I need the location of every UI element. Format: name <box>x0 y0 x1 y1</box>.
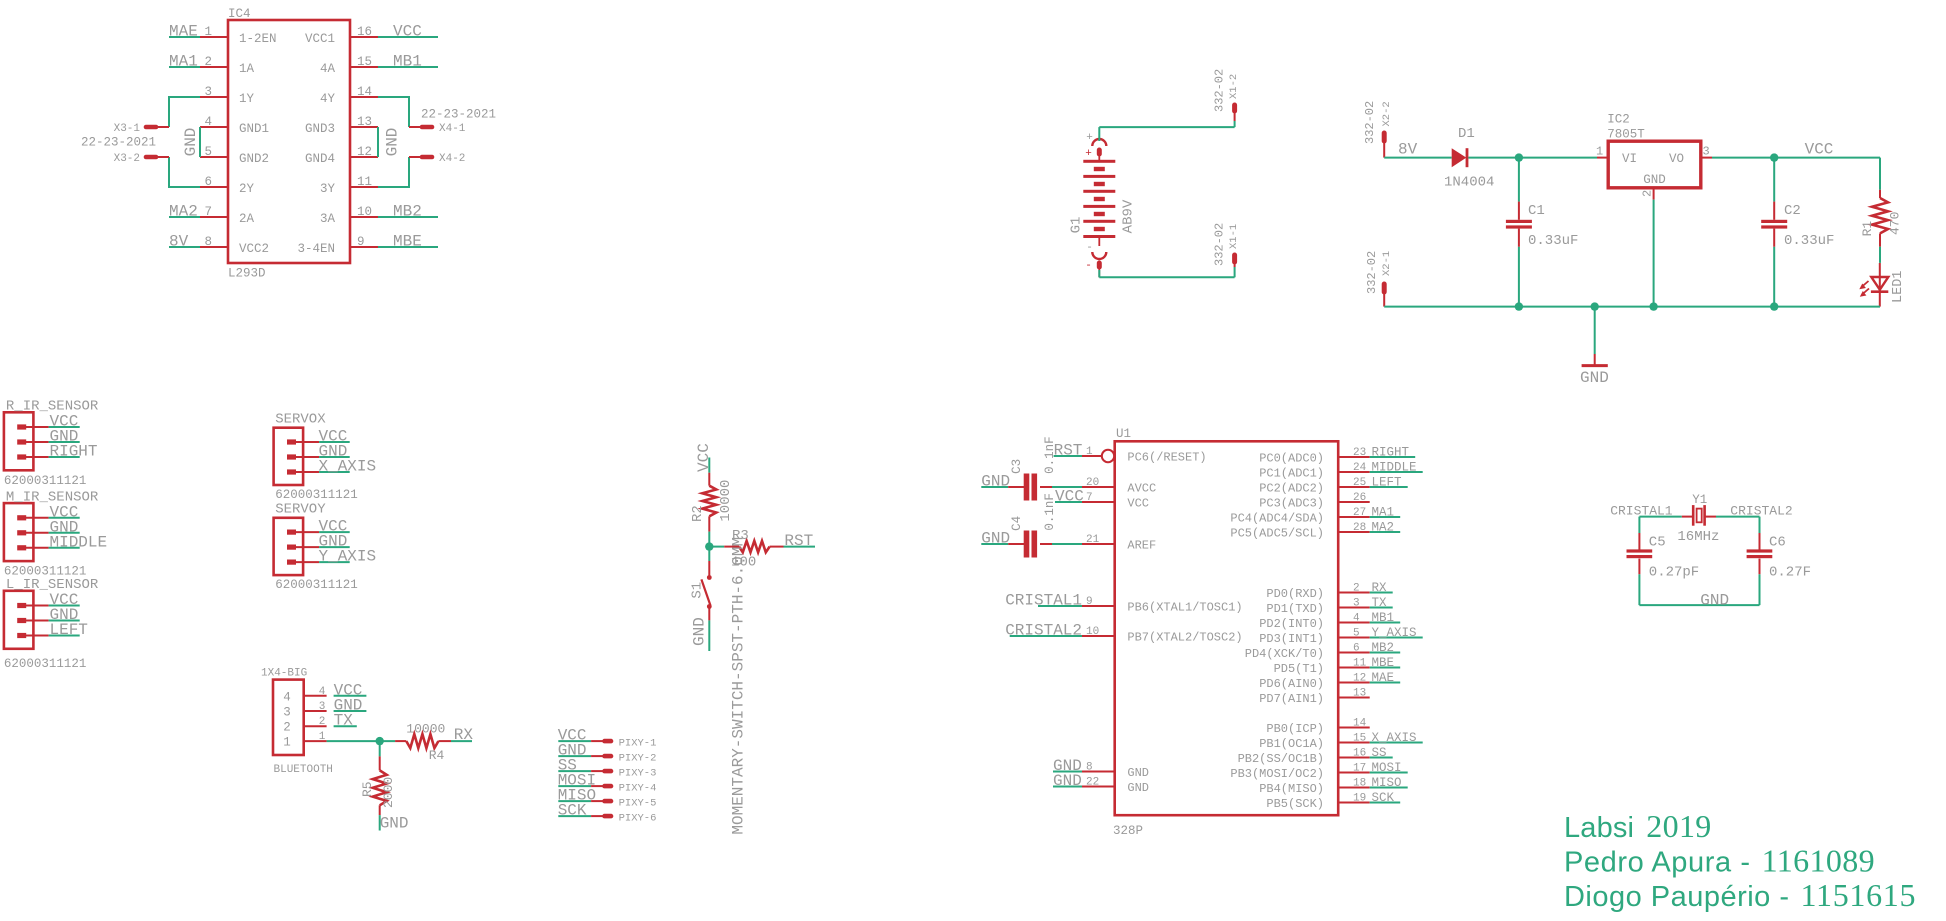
svg-text:VCC: VCC <box>1127 497 1149 511</box>
svg-text:GND: GND <box>1053 772 1082 790</box>
battery G1 value AB9V <box>1120 199 1136 233</box>
svg-text:24: 24 <box>1353 462 1367 474</box>
connector SERVOX body <box>274 428 320 485</box>
svg-text:PIXY-3: PIXY-3 <box>619 768 657 780</box>
connector SERVOY body <box>274 518 320 575</box>
U1 pin 17 PB3(MOSI/OC2) <box>1230 763 1369 782</box>
label CRISTAL1 <box>1610 503 1673 518</box>
svg-text:13: 13 <box>357 115 372 129</box>
crystal Y1 <box>1682 505 1716 526</box>
net VCC above R2 <box>695 443 713 473</box>
svg-text:VCC1: VCC1 <box>305 32 335 46</box>
svg-text:3: 3 <box>1353 598 1360 610</box>
svg-text:4: 4 <box>204 115 212 129</box>
svg-text:Y_AXIS: Y_AXIS <box>319 548 377 566</box>
U1 pin 21 AREF <box>1082 534 1156 553</box>
net GND at SERVOY pin 2 <box>319 533 350 551</box>
net MOSI at U1 pin 17 <box>1370 761 1408 775</box>
U1 pin 3 PD1(TXD) <box>1266 598 1369 617</box>
svg-text:9: 9 <box>1086 596 1093 608</box>
svg-text:RIGHT: RIGHT <box>50 443 98 461</box>
svg-text:1: 1 <box>1086 446 1093 458</box>
svg-text:0.33uF: 0.33uF <box>1784 233 1834 249</box>
svg-text:9: 9 <box>357 235 365 249</box>
svg-text:1-2EN: 1-2EN <box>239 32 277 46</box>
label 22-23-2021 left <box>81 136 156 150</box>
connector L_IR_SENSOR name <box>6 577 99 593</box>
labels 332-02 X2-1 <box>1365 251 1393 294</box>
net MB2 at U1 pin 6 <box>1370 641 1401 655</box>
capacitor C4 with GND <box>981 493 1082 557</box>
connector SERVOY value 62000311121 <box>275 578 358 592</box>
svg-text:6: 6 <box>1353 643 1360 655</box>
connector R_IR_SENSOR name <box>6 399 99 415</box>
connector SERVOY name <box>275 502 326 518</box>
svg-text:6: 6 <box>204 175 212 189</box>
svg-text:4: 4 <box>319 686 326 698</box>
svg-text:VCC: VCC <box>1055 488 1084 506</box>
svg-text:470: 470 <box>1888 212 1903 235</box>
svg-text:MB2: MB2 <box>393 203 422 221</box>
svg-text:RX: RX <box>454 726 474 744</box>
svg-text:C4: C4 <box>1010 516 1024 531</box>
svg-text:PB7(XTAL2/TOSC2): PB7(XTAL2/TOSC2) <box>1127 631 1242 645</box>
IC U1 body <box>1115 441 1339 815</box>
net VCC at SERVOY pin 1 <box>319 518 350 536</box>
svg-text:Y1: Y1 <box>1692 493 1707 507</box>
net MA2 wire+label at IC4 <box>169 203 200 221</box>
svg-text:2: 2 <box>1353 583 1360 595</box>
svg-text:LEFT: LEFT <box>1372 476 1403 490</box>
IC4 pin 11 3Y <box>320 175 378 196</box>
svg-text:21: 21 <box>1086 534 1100 546</box>
svg-text:GND: GND <box>690 617 708 646</box>
svg-text:62000311121: 62000311121 <box>4 657 87 671</box>
resistor R1 <box>1860 198 1903 236</box>
connector L_IR_SENSOR value 62000311121 <box>4 657 87 671</box>
net TX at BLUETOOTH pin 2 <box>319 712 357 730</box>
wire IC4 pin14 to X4-1 <box>378 97 409 127</box>
svg-text:RX: RX <box>1372 581 1388 595</box>
pin X4-2 <box>409 153 465 165</box>
svg-text:5: 5 <box>1353 628 1360 640</box>
connector R_IR_SENSOR value 62000311121 <box>4 474 87 488</box>
U1 pin 14 PB0(ICP) <box>1266 718 1369 737</box>
net GND bracket right of IC4 <box>378 127 402 157</box>
svg-text:62000311121: 62000311121 <box>4 474 87 488</box>
svg-text:PIXY-1: PIXY-1 <box>619 738 657 750</box>
svg-text:28: 28 <box>1353 522 1366 534</box>
svg-text:MOSI: MOSI <box>1372 761 1402 775</box>
svg-text:62000311121: 62000311121 <box>275 578 358 592</box>
net MIDDLE at M_IR_SENSOR pin 3 <box>49 533 108 551</box>
IC4 pin 4 GND1 <box>200 115 269 136</box>
svg-text:VCC: VCC <box>393 23 422 41</box>
svg-text:15: 15 <box>357 55 372 69</box>
svg-text:C5: C5 <box>1649 535 1666 551</box>
svg-text:GND: GND <box>380 815 409 833</box>
svg-text:PD1(TXD): PD1(TXD) <box>1266 602 1324 616</box>
U1 pin 28 PC5(ADC5/SCL) <box>1230 522 1369 541</box>
IC4 name label <box>228 7 251 21</box>
wire BLUETOOTH pin1 to node <box>327 737 396 745</box>
resistor R4 <box>395 722 451 764</box>
battery G1 bottom clip <box>1085 238 1106 277</box>
svg-text:3Y: 3Y <box>320 182 336 196</box>
connector M_IR_SENSOR body <box>4 503 49 561</box>
svg-text:0.1nF: 0.1nF <box>1043 493 1057 531</box>
U1 pin 16 PB2(SS/OC1B) <box>1238 748 1370 767</box>
svg-text:VCC: VCC <box>1805 141 1834 159</box>
wire CRISTAL1 loop <box>1639 517 1681 533</box>
svg-text:MAE: MAE <box>1372 671 1395 685</box>
connector M_IR_SENSOR value 62000311121 <box>4 565 87 579</box>
svg-text:GND2: GND2 <box>239 152 269 166</box>
pin X2-2 <box>1382 133 1387 158</box>
svg-text:PB3(MOSI/OC2): PB3(MOSI/OC2) <box>1230 767 1324 781</box>
net CRISTAL2 at U1 <box>1005 622 1082 640</box>
pin X2-1 <box>1382 284 1387 307</box>
svg-text:332-02: 332-02 <box>1213 69 1227 112</box>
wire R2 to node <box>705 516 713 551</box>
svg-text:14: 14 <box>357 85 372 99</box>
svg-text:332-02: 332-02 <box>1213 223 1227 266</box>
svg-text:D1: D1 <box>1458 126 1475 142</box>
U1 pin 22 GND <box>1082 777 1149 796</box>
svg-text:MB2: MB2 <box>1372 641 1395 655</box>
svg-text:4Y: 4Y <box>320 92 336 106</box>
wire VCC corner down to R1 <box>1879 158 1881 198</box>
svg-text:RST: RST <box>784 532 813 550</box>
IC4 pin 8 VCC2 <box>200 235 269 256</box>
net SCK at U1 pin 19 <box>1370 791 1401 805</box>
net GND at U1 pin22 <box>1053 772 1082 790</box>
U1 pin 15 PB1(OC1A) <box>1259 733 1370 752</box>
svg-text:Y_AXIS: Y_AXIS <box>1372 626 1417 640</box>
svg-text:1X4-BIG: 1X4-BIG <box>261 667 307 679</box>
IC2 pin 1 <box>1596 145 1608 159</box>
IC4 pin 12 GND4 <box>305 145 378 166</box>
wire D1 to IC2 pin1 <box>1468 153 1597 161</box>
connector BLUETOOTH name 1X4-BIG <box>261 667 307 679</box>
resistor R2 <box>690 480 734 522</box>
svg-text:PD7(AIN1): PD7(AIN1) <box>1259 692 1324 706</box>
net MB1 wire+label at IC4 <box>378 53 438 71</box>
svg-text:PC3(ADC3): PC3(ADC3) <box>1259 497 1324 511</box>
svg-text:2000: 2000 <box>381 777 396 808</box>
IC4 pin 10 3A <box>320 205 378 226</box>
net GND at M_IR_SENSOR pin 2 <box>49 518 80 536</box>
net VCC at U1 <box>1055 488 1084 506</box>
svg-text:R1: R1 <box>1860 221 1875 237</box>
svg-text:X1-2: X1-2 <box>1228 74 1240 99</box>
svg-text:MOMENTARY-SWITCH-SPST-PTH-6.0M: MOMENTARY-SWITCH-SPST-PTH-6.0MM <box>729 537 747 835</box>
svg-text:MA2: MA2 <box>1372 521 1395 535</box>
svg-text:0.27pF: 0.27pF <box>1649 565 1699 581</box>
svg-text:17: 17 <box>1353 763 1366 775</box>
pin X4-1 <box>409 123 466 135</box>
svg-text:1: 1 <box>204 25 212 39</box>
svg-text:PB5(SCK): PB5(SCK) <box>1266 797 1324 811</box>
svg-text:25: 25 <box>1353 477 1366 489</box>
svg-text:GND: GND <box>1643 173 1666 187</box>
svg-text:+: + <box>1086 132 1093 144</box>
ground symbol <box>1580 307 1609 387</box>
svg-text:VCC2: VCC2 <box>239 242 269 256</box>
svg-text:Labsi: Labsi <box>1564 812 1634 844</box>
svg-text:GND: GND <box>182 128 200 157</box>
connector SERVOX value 62000311121 <box>275 488 358 502</box>
net TX at U1 pin 3 <box>1370 596 1393 610</box>
svg-text:MB1: MB1 <box>1372 611 1395 625</box>
net MBE at U1 pin 11 <box>1370 656 1401 670</box>
svg-text:SCK: SCK <box>1372 791 1395 805</box>
svg-text:8: 8 <box>204 235 212 249</box>
IC4 pin 14 4Y <box>320 85 378 106</box>
svg-text:GND: GND <box>1127 766 1149 780</box>
svg-text:U1: U1 <box>1116 427 1131 441</box>
U1 pin 26 PC3(ADC3) <box>1259 492 1370 511</box>
svg-text:0.1nF: 0.1nF <box>1043 436 1057 474</box>
svg-text:22-23-2021: 22-23-2021 <box>81 136 156 150</box>
svg-text:PD0(RXD): PD0(RXD) <box>1266 587 1324 601</box>
svg-text:27: 27 <box>1353 507 1366 519</box>
svg-text:GND4: GND4 <box>305 152 335 166</box>
svg-text:PIXY-2: PIXY-2 <box>619 753 657 765</box>
pin PIXY-2 with net GND <box>558 742 657 765</box>
svg-text:S1: S1 <box>690 582 706 599</box>
svg-text:BLUETOOTH: BLUETOOTH <box>274 764 333 776</box>
svg-text:16: 16 <box>1353 748 1366 760</box>
wire S1 to GND <box>708 607 710 651</box>
svg-text:1151615: 1151615 <box>1801 877 1916 913</box>
svg-text:GND: GND <box>384 128 402 157</box>
svg-text:3: 3 <box>1703 145 1710 159</box>
net GND at L_IR_SENSOR pin 2 <box>49 606 80 624</box>
svg-text:PD5(T1): PD5(T1) <box>1274 662 1324 676</box>
net RX at U1 pin 2 <box>1370 581 1393 595</box>
title text Labsi 2019 <box>1564 808 1711 844</box>
battery G1 name <box>1069 217 1085 234</box>
U1 pin 5 PD3(INT1) <box>1259 628 1370 647</box>
net SS at U1 pin 16 <box>1370 746 1393 760</box>
svg-text:PC4(ADC4/SDA): PC4(ADC4/SDA) <box>1230 512 1324 526</box>
svg-text:0.27F: 0.27F <box>1769 565 1811 581</box>
wire IC4 pin3 to X3-1 <box>169 97 200 127</box>
svg-text:PC1(ADC1): PC1(ADC1) <box>1259 467 1324 481</box>
svg-text:3A: 3A <box>320 212 336 226</box>
Y1 name label <box>1692 493 1707 507</box>
svg-text:PB0(ICP): PB0(ICP) <box>1266 722 1324 736</box>
svg-text:IC4: IC4 <box>228 7 251 21</box>
capacitor C1 <box>1506 158 1579 307</box>
svg-text:PIXY-6: PIXY-6 <box>619 813 657 825</box>
svg-text:TX: TX <box>1372 596 1388 610</box>
svg-text:11: 11 <box>357 175 372 189</box>
svg-text:PC0(ADC0): PC0(ADC0) <box>1259 452 1324 466</box>
svg-text:4A: 4A <box>320 62 336 76</box>
svg-text:PD2(INT0): PD2(INT0) <box>1259 617 1324 631</box>
svg-text:AREF: AREF <box>1127 539 1156 553</box>
svg-text:MA1: MA1 <box>169 53 198 71</box>
U1 pin 23 PC0(ADC0) <box>1259 447 1370 466</box>
net RST at U1 <box>1054 442 1083 460</box>
labels 332-02 X1-2 <box>1213 69 1240 112</box>
svg-text:IC2: IC2 <box>1607 113 1630 127</box>
svg-text:-: - <box>1086 242 1093 254</box>
svg-text:1N4004: 1N4004 <box>1444 175 1494 191</box>
wire CRISTAL2 loop <box>1716 517 1760 533</box>
svg-text:1Y: 1Y <box>239 92 255 106</box>
svg-text:1161089: 1161089 <box>1762 842 1875 878</box>
net GND at crystal <box>1700 592 1729 610</box>
net MA1 wire+label at IC4 <box>169 53 200 71</box>
svg-text:MIDDLE: MIDDLE <box>1372 461 1417 475</box>
wire R1 to LED1 <box>1879 233 1881 263</box>
svg-text:RIGHT: RIGHT <box>1372 446 1410 460</box>
svg-text:PD3(INT1): PD3(INT1) <box>1259 632 1324 646</box>
net MBE wire+label at IC4 <box>378 233 438 251</box>
svg-text:3: 3 <box>319 701 326 713</box>
svg-text:C2: C2 <box>1784 203 1801 219</box>
svg-text:1: 1 <box>283 736 291 750</box>
net Y_AXIS at SERVOY pin 3 <box>319 548 377 566</box>
net GND at R_IR_SENSOR pin 2 <box>49 428 80 446</box>
svg-text:22-23-2021: 22-23-2021 <box>421 108 496 122</box>
svg-text:12: 12 <box>357 145 372 159</box>
svg-text:X1-1: X1-1 <box>1228 224 1240 249</box>
svg-text:8: 8 <box>1086 762 1093 774</box>
net X_AXIS at U1 pin 15 <box>1370 731 1423 745</box>
svg-text:11: 11 <box>1353 658 1367 670</box>
svg-text:0.33uF: 0.33uF <box>1528 233 1578 249</box>
U1 pin 4 PD2(INT0) <box>1259 613 1370 632</box>
svg-text:7805T: 7805T <box>1607 128 1645 142</box>
wire node to S1 <box>708 547 710 576</box>
svg-text:VCC: VCC <box>695 443 713 472</box>
net GND bracket left of IC4 <box>182 127 200 157</box>
U1 pin 10 PB7(XTAL2/TOSC2) <box>1082 626 1243 645</box>
labels 332-02 X1-1 <box>1213 223 1240 266</box>
svg-text:SERVOX: SERVOX <box>275 412 326 428</box>
svg-text:C1: C1 <box>1528 203 1545 219</box>
svg-text:2: 2 <box>1641 190 1655 197</box>
net GND at BLUETOOTH pin 3 <box>319 697 367 715</box>
svg-text:MB1: MB1 <box>393 53 422 71</box>
svg-text:MIDDLE: MIDDLE <box>50 533 108 551</box>
svg-text:10: 10 <box>1086 626 1099 638</box>
svg-text:26: 26 <box>1353 492 1366 504</box>
svg-text:MA1: MA1 <box>1372 506 1395 520</box>
connector BLUETOOTH 1X4-BIG body <box>273 680 327 755</box>
svg-text:X4-2: X4-2 <box>439 153 465 165</box>
wire IC4 pin11 to X4-2 <box>378 157 409 187</box>
label 22-23-2021 right <box>421 108 496 122</box>
svg-text:13: 13 <box>1353 688 1366 700</box>
svg-text:19: 19 <box>1353 793 1366 805</box>
U1 pin 12 PD6(AIN0) <box>1259 673 1370 692</box>
svg-text:2A: 2A <box>239 212 255 226</box>
svg-text:15: 15 <box>1353 733 1366 745</box>
title text Diogo Pauperio <box>1564 877 1916 913</box>
IC4 pin 15 4A <box>320 55 378 76</box>
IC4 pin 6 2Y <box>200 175 255 196</box>
svg-text:PC6(/RESET): PC6(/RESET) <box>1127 451 1206 465</box>
IC2 labels <box>1607 113 1684 188</box>
U1 pin 8 GND <box>1082 762 1149 781</box>
net MAE at U1 pin 12 <box>1370 671 1401 685</box>
capacitor C5 <box>1627 533 1700 605</box>
svg-text:RST: RST <box>1054 442 1083 460</box>
svg-text:3: 3 <box>283 706 291 720</box>
wire VCC to R2 <box>708 473 710 486</box>
IC2 pin 3 <box>1701 145 1712 159</box>
svg-text:5: 5 <box>204 145 212 159</box>
IC4 pin 13 GND3 <box>305 115 378 136</box>
svg-text:X3-1: X3-1 <box>114 123 141 135</box>
wire ground rail <box>1384 302 1880 310</box>
U1 pin 1 PC6(/RESET) <box>1082 446 1207 465</box>
net 8V label <box>1398 141 1418 159</box>
svg-text:-: - <box>1085 260 1092 272</box>
svg-text:22: 22 <box>1086 777 1099 789</box>
svg-text:GND: GND <box>1127 781 1149 795</box>
svg-text:Pedro Apura -: Pedro Apura - <box>1564 846 1750 878</box>
svg-text:4: 4 <box>1353 613 1360 625</box>
U1 pin 6 PD4(XCK/T0) <box>1245 643 1370 662</box>
wire battery+ to X1-2 <box>1099 121 1234 141</box>
net VCC wire+label at IC4 <box>378 23 438 41</box>
svg-text:PB2(SS/OC1B): PB2(SS/OC1B) <box>1238 752 1324 766</box>
net RIGHT at U1 pin 23 <box>1370 446 1416 460</box>
net GND at U1 pin8 <box>1053 757 1082 775</box>
svg-text:PD4(XCK/T0): PD4(XCK/T0) <box>1245 647 1324 661</box>
pin PIXY-6 with net SCK <box>558 802 657 825</box>
net RST label <box>784 532 816 550</box>
svg-text:LEFT: LEFT <box>50 621 88 639</box>
net VCC at BLUETOOTH pin 4 <box>319 681 367 699</box>
svg-text:1: 1 <box>1596 145 1603 159</box>
svg-text:AVCC: AVCC <box>1127 482 1156 496</box>
U1 pin 20 AVCC <box>1082 477 1156 496</box>
IC4 pin 5 GND2 <box>200 145 269 166</box>
net VCC at SERVOX pin 1 <box>319 428 350 446</box>
svg-text:16MHz: 16MHz <box>1677 529 1719 545</box>
wire battery- to X1-1 <box>1099 267 1234 277</box>
svg-text:VO: VO <box>1669 152 1684 166</box>
capacitor C3 with GND <box>981 436 1082 500</box>
svg-text:2: 2 <box>204 55 212 69</box>
battery G1 top clip <box>1085 132 1106 161</box>
pin X3-1 <box>114 123 169 135</box>
svg-text:PC5(ADC5/SCL): PC5(ADC5/SCL) <box>1230 527 1324 541</box>
IC4 pin 9 3-4EN <box>297 235 378 256</box>
IC4 pin 7 2A <box>200 205 255 226</box>
svg-text:SERVOY: SERVOY <box>275 502 326 518</box>
svg-text:GND: GND <box>1580 369 1609 387</box>
svg-text:C3: C3 <box>1010 459 1024 474</box>
svg-text:PB1(OC1A): PB1(OC1A) <box>1259 737 1324 751</box>
svg-text:MBE: MBE <box>393 233 422 251</box>
diode D1 <box>1444 126 1494 191</box>
wire crystal ground <box>1639 604 1759 606</box>
connector R_IR_SENSOR body <box>4 412 49 470</box>
pin X1-1 <box>1232 255 1237 267</box>
pin PIXY-4 with net MOSI <box>558 772 657 795</box>
net 8V wire+label at IC4 <box>169 233 200 251</box>
net GND below S1 <box>690 617 708 646</box>
connector SERVOX name <box>275 412 326 428</box>
